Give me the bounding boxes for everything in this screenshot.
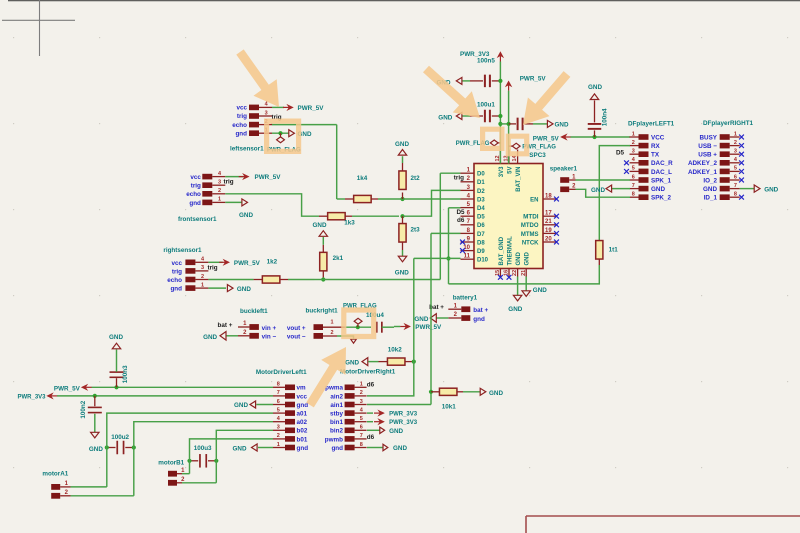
svg-text:d6: d6 <box>367 382 375 389</box>
MCU U1 body <box>474 164 543 269</box>
svg-text:3: 3 <box>277 425 280 431</box>
svg-text:DAC_L: DAC_L <box>651 169 672 176</box>
svg-text:100u1: 100u1 <box>477 102 495 109</box>
svg-text:frontsensor1: frontsensor1 <box>178 216 217 223</box>
wire speaker1 pin2 to SPK_2 <box>576 189 631 197</box>
wire DFplayerLEFT RX <box>599 146 630 241</box>
svg-text:3: 3 <box>734 149 737 155</box>
svg-text:D7: D7 <box>477 232 485 238</box>
svg-text:17: 17 <box>545 211 552 217</box>
wire buckleft vin- to GND <box>226 335 238 337</box>
wire buckright vout+ <box>345 326 372 328</box>
GND label above 2k1 <box>313 222 328 245</box>
svg-text:GND: GND <box>393 445 407 452</box>
battery1 pin 2 <box>448 312 485 323</box>
svg-text:GND: GND <box>313 222 327 229</box>
svg-text:PWR_5V: PWR_5V <box>533 135 560 142</box>
buckleft1 pin 1 vin+ <box>238 321 276 332</box>
wire 5V rail <box>508 91 510 164</box>
junction 100u3 right <box>214 459 218 463</box>
svg-text:D8: D8 <box>477 240 485 246</box>
ground symbol below 100n2 <box>89 432 103 453</box>
label bat + at battery <box>429 304 444 311</box>
MCU left pin names D0-D10 <box>477 172 489 264</box>
wire MotorDriverRight gnd <box>367 447 383 449</box>
motorB1 reference label <box>158 459 184 466</box>
speaker1 pin 1 <box>560 174 576 182</box>
wire leftsensor gnd <box>272 132 289 134</box>
motorA1 pin 1 <box>51 481 70 490</box>
power symbol PWR_5V <box>506 75 547 90</box>
wire b01 net down to motorB pin1 <box>182 454 190 474</box>
svg-text:GND: GND <box>651 186 665 193</box>
label trig on rightsensor pin 3 <box>208 265 218 272</box>
wire D0 riser <box>440 173 460 279</box>
no-connect on MCU D8 <box>460 240 465 245</box>
wire MCU GND2 pin to ground <box>525 277 527 291</box>
capacitor 100u2 <box>107 434 134 454</box>
connector frontsensor1 pin 2 echo <box>202 188 225 197</box>
svg-text:7: 7 <box>277 390 280 396</box>
svg-text:7: 7 <box>734 183 737 189</box>
svg-text:GND: GND <box>508 306 522 313</box>
svg-text:PWR_5V: PWR_5V <box>415 324 442 331</box>
svg-text:11: 11 <box>464 254 471 260</box>
svg-text:GND: GND <box>203 334 217 341</box>
svg-text:gnd: gnd <box>331 445 343 452</box>
junction 100u2 right <box>132 445 136 449</box>
svg-text:trig: trig <box>224 179 234 186</box>
rightsensor1 reference label <box>163 247 202 254</box>
junction 100n3 on vm wire <box>114 385 118 389</box>
svg-text:pwma: pwma <box>325 385 343 392</box>
wire buckright cap to label <box>394 326 400 328</box>
svg-text:DFplayerLEFT1: DFplayerLEFT1 <box>628 121 675 128</box>
wire MCU D10 <box>414 257 461 259</box>
svg-text:2: 2 <box>201 274 204 280</box>
svg-text:echo: echo <box>232 122 247 129</box>
svg-text:EN: EN <box>530 197 538 203</box>
global label PWR_5V feeding DFplayer <box>533 134 571 142</box>
wire 3V3 to 5V bypass <box>500 123 508 125</box>
no-connect on BAT_GND and THERMAL <box>498 275 511 280</box>
svg-text:gnd: gnd <box>170 286 182 293</box>
svg-text:a02: a02 <box>297 419 308 426</box>
connector leftsensor1 pin 2 echo <box>249 119 272 128</box>
svg-text:USB +: USB + <box>698 152 717 159</box>
ground symbol 2 below MCU <box>522 287 547 297</box>
svg-text:BAT_VIN: BAT_VIN <box>516 167 522 192</box>
buckright1 pin 2 vout- <box>287 330 337 340</box>
wire MCU D7 to net B <box>431 233 461 404</box>
svg-text:19: 19 <box>545 228 552 234</box>
svg-text:MotorDriverLeft1: MotorDriverLeft1 <box>256 369 307 376</box>
svg-text:2: 2 <box>632 140 635 146</box>
svg-text:5: 5 <box>277 407 280 413</box>
svg-text:vcc: vcc <box>297 393 308 400</box>
leftsensor1 reference label <box>230 146 264 153</box>
junction 10k1 on net B <box>429 390 433 394</box>
svg-text:10k1: 10k1 <box>442 403 457 410</box>
connector rightsensor1 pin 2 echo <box>185 274 208 283</box>
power flag PWR_FLAG at buckright <box>343 304 377 328</box>
svg-text:ADKEY_2: ADKEY_2 <box>688 160 718 167</box>
GND label at buckleft <box>203 332 226 341</box>
svg-text:PWR_3V3: PWR_3V3 <box>389 412 418 418</box>
power flag PWR_FLAG on 5V <box>509 143 557 159</box>
origin crosshair <box>2 0 75 56</box>
wire net A vertical D10 to ain2 <box>367 258 414 396</box>
svg-text:trig: trig <box>191 183 201 190</box>
svg-text:GND: GND <box>345 360 359 367</box>
MCU right pin names <box>521 197 539 246</box>
buckleft1 pin 2 vin- <box>238 330 276 341</box>
capacitor 100u4 <box>366 312 394 333</box>
svg-text:TX: TX <box>651 152 660 159</box>
svg-text:a01: a01 <box>297 411 308 418</box>
junction 10k2 on net A <box>412 360 416 364</box>
buckright1 pin 1 vout+ <box>287 319 345 331</box>
svg-text:3: 3 <box>218 180 221 186</box>
label bat + at buckleft <box>218 322 233 329</box>
wire a02 <box>134 422 273 441</box>
ground symbol below MCU <box>508 295 522 313</box>
svg-text:BAT_GND: BAT_GND <box>499 236 505 265</box>
wire bin2 to GND <box>367 429 380 431</box>
wire PWR_5V to DFplayerLEFT VCC <box>571 136 631 138</box>
wire vcc to PWR_3V3 <box>57 395 273 397</box>
svg-text:GND: GND <box>237 286 251 293</box>
svg-text:GND: GND <box>516 252 522 266</box>
svg-text:MTMS: MTMS <box>521 232 539 238</box>
GND label at battery <box>414 314 436 323</box>
motorA1 pin 2 <box>51 490 70 499</box>
wire bin1 to PWR_3V3 <box>367 421 373 423</box>
annotation arrow 2 at 100u1 <box>423 66 480 118</box>
svg-text:GND: GND <box>525 252 531 266</box>
GND label at MotorDriverRight gnd <box>383 444 407 452</box>
svg-text:1k3: 1k3 <box>344 220 355 227</box>
wire a02 net down to motorA pin2 <box>71 441 134 496</box>
svg-text:echo: echo <box>186 191 201 198</box>
svg-text:PWR_5V: PWR_5V <box>255 174 282 181</box>
wire 1k4 junction to MCU D3 <box>399 198 461 200</box>
svg-text:5: 5 <box>632 166 635 172</box>
svg-text:D9: D9 <box>477 249 485 255</box>
MotorDriverRight1 pin names <box>325 385 344 452</box>
svg-text:GND: GND <box>389 428 403 435</box>
svg-text:vin −: vin − <box>262 334 277 341</box>
svg-text:1k4: 1k4 <box>357 175 368 182</box>
svg-text:2k1: 2k1 <box>333 255 344 262</box>
MotorDriverRight1 reference label <box>340 369 396 376</box>
label d6 on pwma <box>367 382 375 389</box>
label d6 on pwmb <box>367 434 375 441</box>
motorB1 pin 2 <box>168 477 185 486</box>
svg-text:vm: vm <box>297 385 307 392</box>
svg-text:D1: D1 <box>477 180 485 186</box>
junction 1k3 / 2t3 <box>400 214 404 218</box>
annotation square at PWR_FLAG 3V3 <box>480 127 505 151</box>
svg-text:RX: RX <box>651 143 661 150</box>
DFplayerLEFT1 pin names <box>651 134 673 201</box>
junction 100u2 left <box>105 445 109 449</box>
svg-text:6: 6 <box>632 174 635 180</box>
svg-text:GND: GND <box>234 402 248 409</box>
svg-text:MotorDriverRight1: MotorDriverRight1 <box>340 369 396 376</box>
svg-text:D4: D4 <box>477 206 485 212</box>
svg-text:D0: D0 <box>477 172 485 178</box>
svg-text:MTDO: MTDO <box>521 223 539 229</box>
wire MotorDriverLeft gnd pin1 <box>258 447 273 449</box>
power label PWR_5V at rightsensor <box>219 260 260 267</box>
wire a01 net down to motorA pin1 <box>71 441 107 487</box>
DFplayerRIGHT1 pin names <box>688 134 718 201</box>
svg-text:SPK_1: SPK_1 <box>651 177 671 184</box>
svg-text:vin +: vin + <box>262 325 277 332</box>
svg-text:bat +: bat + <box>218 322 233 329</box>
svg-text:22: 22 <box>512 270 518 276</box>
GND label left of 100n5 <box>437 77 462 86</box>
GND label at DFplayerLEFT pin7 <box>591 185 630 194</box>
wire echo row to D0 riser <box>323 279 440 281</box>
svg-text:100n2: 100n2 <box>80 400 87 418</box>
resistor 2k1 <box>315 245 344 280</box>
MotorDriverRight1 pins <box>345 382 367 451</box>
motorA1 reference label <box>42 471 68 478</box>
svg-text:DFplayerRIGHT1: DFplayerRIGHT1 <box>703 120 754 127</box>
svg-text:PWR_5V: PWR_5V <box>54 385 81 392</box>
label d6 on MCU pin 7 <box>457 217 465 224</box>
resistor 10k1 <box>431 388 480 410</box>
wire frontsensor gnd <box>225 201 242 203</box>
svg-text:trig: trig <box>237 113 247 120</box>
power symbol PWR_3V3 <box>460 51 503 62</box>
power label PWR_5V at frontsensor <box>239 174 281 181</box>
svg-text:SPC3: SPC3 <box>529 152 546 159</box>
connector frontsensor1 pin 4 vcc <box>202 171 225 180</box>
wire TX net riser D4 <box>449 208 461 284</box>
wire 1k3 junction jog to MCU D2 <box>403 190 461 216</box>
svg-text:motorB1: motorB1 <box>158 459 184 466</box>
svg-text:8: 8 <box>734 192 737 198</box>
no-connect DAC_L <box>624 169 629 174</box>
wire leftsensor vcc to PWR_5V <box>272 106 284 108</box>
svg-text:vcc: vcc <box>171 260 182 267</box>
svg-text:PWR_3V3: PWR_3V3 <box>389 420 418 426</box>
svg-text:5: 5 <box>360 416 363 422</box>
speaker1 pin 2 <box>560 184 576 192</box>
connector frontsensor1 pin 3 trig <box>202 180 225 189</box>
svg-text:3: 3 <box>265 110 268 116</box>
svg-text:bat +: bat + <box>473 307 488 314</box>
MotorDriverLeft1 pin names <box>297 385 309 452</box>
svg-text:speaker1: speaker1 <box>550 166 578 173</box>
connector rightsensor1 pin 4 vcc <box>185 257 208 266</box>
capacitor 100n5 <box>462 58 500 88</box>
MotorDriverLeft1 reference label <box>256 369 307 376</box>
connector rightsensor1 pin names <box>167 260 182 293</box>
DFplayerRIGHT1 pins 1-8 <box>720 131 740 200</box>
label trig on MCU pin 2 <box>454 174 464 181</box>
wire buckright vout- to ground <box>337 336 354 339</box>
svg-text:100n3: 100n3 <box>122 365 129 383</box>
svg-text:pwmb: pwmb <box>325 436 343 443</box>
svg-text:PWR_5V: PWR_5V <box>234 260 261 267</box>
connector rightsensor1 pin 3 trig <box>185 265 208 274</box>
svg-text:GND: GND <box>109 334 123 341</box>
GND label at DFplayerRIGHT pin7 <box>754 185 778 194</box>
label trig on frontsensor pin 3 <box>224 179 234 186</box>
battery1 pin 1 <box>448 303 488 314</box>
power label PWR_5V at motor supply <box>54 385 92 393</box>
GND label above 2t2 <box>395 141 409 163</box>
svg-text:battery1: battery1 <box>453 294 478 301</box>
svg-text:GND: GND <box>555 121 569 128</box>
DFplayerLEFT1 reference label <box>628 121 675 128</box>
svg-text:100n4: 100n4 <box>602 108 609 126</box>
junction 3V3 100u1 <box>498 114 502 118</box>
connector rightsensor1 pin 1 gnd <box>185 282 208 291</box>
svg-text:D5: D5 <box>616 149 625 156</box>
wire frontsensor echo to 1k3 <box>225 194 319 216</box>
wire MCU GND pin to ground <box>517 277 519 296</box>
wire rightsensor vcc to PWR_5V <box>208 261 222 263</box>
wire rightsensor gnd <box>208 287 226 289</box>
label D5 on DFplayerLEFT TX <box>616 149 625 156</box>
svg-text:ID_1: ID_1 <box>704 195 718 202</box>
svg-text:GND: GND <box>438 114 452 121</box>
wire b01 <box>190 439 274 454</box>
svg-text:3: 3 <box>201 265 204 271</box>
GND label at MotorDriverLeft pin1 <box>233 444 258 452</box>
svg-text:GND: GND <box>233 445 247 452</box>
svg-text:buckleft1: buckleft1 <box>240 308 268 315</box>
svg-text:2t3: 2t3 <box>411 227 421 234</box>
wire battery gnd to GND <box>436 317 448 319</box>
power flag PWR_FLAG on 3V3 <box>456 140 501 147</box>
svg-text:GND: GND <box>239 212 253 219</box>
GND label at MotorDriverLeft pin6 <box>234 401 256 409</box>
capacitor 100u1 <box>462 102 500 123</box>
svg-text:D10: D10 <box>477 258 489 264</box>
svg-text:trig: trig <box>208 265 218 272</box>
MotorDriverLeft1 pins <box>273 382 295 451</box>
junction 1k4 / 2t2 <box>400 197 404 201</box>
junction 5V bypass row <box>507 122 511 126</box>
svg-text:100u3: 100u3 <box>194 445 212 452</box>
svg-text:MTDI: MTDI <box>523 214 539 221</box>
motorB1 pin 1 <box>168 468 185 477</box>
resistor 2t2 <box>399 163 420 199</box>
svg-text:D5: D5 <box>477 215 485 221</box>
svg-text:vcc: vcc <box>236 105 247 112</box>
resistor 1k2 <box>254 259 315 284</box>
annotation arrow 4 at buckright <box>306 347 346 407</box>
wire leftsensor echo vertical to 1k4 <box>337 125 345 199</box>
global label GND at 10k2 <box>345 358 368 367</box>
wire 1t1 bottom to TX net <box>449 265 600 284</box>
svg-text:2: 2 <box>277 433 280 439</box>
svg-text:vout +: vout + <box>287 325 306 332</box>
sheet frame corner <box>526 516 800 533</box>
label trig on leftsensor pin 3 <box>272 114 282 121</box>
junction buckright vout+ <box>356 325 360 329</box>
svg-text:1: 1 <box>360 382 363 388</box>
junction 100n4 on VCC wire <box>592 135 596 139</box>
svg-text:7: 7 <box>360 433 363 439</box>
junction 100n2 on vcc wire <box>93 394 97 398</box>
svg-text:d6: d6 <box>457 217 465 224</box>
power label PWR_3V3 at bin1 <box>374 419 418 426</box>
battery1 reference label <box>453 294 478 301</box>
svg-text:GND: GND <box>414 316 428 323</box>
svg-text:echo: echo <box>167 277 182 284</box>
svg-text:3: 3 <box>632 149 635 155</box>
resistor 10k2 <box>368 347 414 366</box>
svg-text:1: 1 <box>218 197 221 203</box>
wire MotorDriverLeft gnd pin6 <box>256 404 273 406</box>
svg-text:gnd: gnd <box>189 200 201 207</box>
svg-text:motorA1: motorA1 <box>42 471 68 478</box>
svg-text:6: 6 <box>734 174 737 180</box>
svg-text:PWR_5V: PWR_5V <box>520 75 547 82</box>
connector leftsensor1 pin 1 gnd <box>249 128 272 137</box>
wire a01 <box>107 413 273 441</box>
junction TX net at D10 wire <box>446 256 450 260</box>
wire vm to PWR_5V <box>92 386 274 388</box>
svg-text:D2: D2 <box>477 189 485 195</box>
svg-text:3V3: 3V3 <box>499 166 505 177</box>
svg-text:1: 1 <box>734 131 737 137</box>
annotation square at PWR_FLAG 5V <box>506 134 530 157</box>
junction 2k1 bottom <box>321 277 325 281</box>
GND label above 100n3 <box>109 334 123 349</box>
GND label below 2t3 <box>395 250 409 277</box>
DFplayerRIGHT1 reference label <box>703 120 754 127</box>
power flag PWR_FLAG at leftsensor gnd <box>267 133 301 153</box>
MCU bottom pin stubs <box>495 269 527 277</box>
svg-text:gnd: gnd <box>297 445 309 452</box>
svg-text:leftsensor1: leftsensor1 <box>230 146 264 153</box>
svg-text:gnd: gnd <box>297 402 309 409</box>
svg-text:VCC: VCC <box>651 134 665 141</box>
svg-text:GND: GND <box>395 141 409 148</box>
grid dots <box>13 37 788 468</box>
svg-text:ain2: ain2 <box>330 393 343 400</box>
frontsensor1 reference label <box>178 216 217 223</box>
power label PWR_3V3 at motor logic supply <box>18 393 58 401</box>
annotation arrow 1 at leftsensor <box>236 49 279 107</box>
svg-text:GND: GND <box>764 187 778 194</box>
MCU bottom pin names <box>499 236 531 266</box>
connector leftsensor1 pin 4 vcc <box>249 102 272 111</box>
svg-text:vout −: vout − <box>287 334 306 341</box>
svg-text:GND: GND <box>489 390 503 397</box>
svg-text:b02: b02 <box>297 428 308 435</box>
svg-text:1k2: 1k2 <box>267 259 278 266</box>
svg-text:DAC_R: DAC_R <box>651 160 673 167</box>
svg-text:bin1: bin1 <box>330 419 343 426</box>
wire DFplayerRIGHT GND <box>740 188 754 190</box>
svg-text:bin2: bin2 <box>330 428 343 435</box>
no-connect DAC_R <box>624 160 629 165</box>
junction 3V3 100n5 <box>498 79 502 83</box>
wire net B to ain1 <box>367 404 431 406</box>
svg-text:5: 5 <box>734 166 737 172</box>
no-connect on MCU D9 <box>460 248 465 253</box>
resistor 1k3 <box>319 213 399 227</box>
